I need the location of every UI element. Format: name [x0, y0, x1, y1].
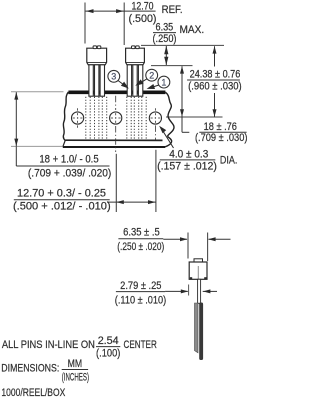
svg-text:REF.: REF.	[162, 4, 183, 16]
svg-text:MAX.: MAX.	[180, 24, 205, 36]
dimension 6.35 MAX arrow line	[165, 46, 167, 65]
svg-text:12.70: 12.70	[132, 1, 154, 13]
svg-text:(.500 + .012/ - .010): (.500 + .012/ - .010)	[13, 200, 111, 212]
sprocket hole 3 centerline dashes	[154, 108, 156, 110]
svg-text:2.54: 2.54	[98, 335, 119, 347]
carrier tape top band	[68, 91, 165, 95]
svg-text:ALL PINS IN-LINE ON: ALL PINS IN-LINE ON	[2, 339, 95, 351]
dimension 12.70 REF extension line right	[123, 3, 125, 46]
sprocket hole 1	[72, 112, 84, 124]
dimension 18 +/-.76 arrow line	[181, 66, 183, 116]
side view package centerline	[197, 266, 199, 279]
svg-text:6.35 ± .5: 6.35 ± .5	[123, 227, 160, 239]
svg-text:MM: MM	[68, 358, 83, 370]
dimension tape width extension lines	[11, 91, 64, 93]
label 18 +1.0/-0.5 (.709 +.039/-.020)	[16, 165, 109, 167]
side view lead dimension 2.79	[188, 285, 190, 296]
svg-text:DIMENSIONS:: DIMENSIONS:	[1, 363, 59, 375]
carrier tape bottom adhesive band	[65, 139, 162, 141]
carrier tape torn right edge	[165, 92, 174, 136]
svg-text:3: 3	[111, 72, 116, 82]
svg-text:(.110 ± .010): (.110 ± .010)	[115, 294, 167, 306]
svg-text:6.35: 6.35	[156, 22, 174, 34]
dimension pitch arrow line	[107, 201, 156, 203]
svg-text:(.709 ± .030): (.709 ± .030)	[195, 132, 248, 144]
transistor package left leads	[89, 65, 93, 96]
svg-text:(.250): (.250)	[153, 33, 177, 45]
svg-text:(.500): (.500)	[129, 13, 157, 25]
svg-text:2: 2	[149, 70, 154, 80]
svg-text:12.70 + 0.3/ - 0.25: 12.70 + 0.3/ - 0.25	[17, 187, 106, 199]
svg-text:(.960 ± .030): (.960 ± .030)	[188, 80, 242, 92]
transistor package right body	[126, 48, 145, 65]
pin label 1	[158, 76, 170, 88]
svg-text:1: 1	[161, 77, 166, 87]
side view upper lead	[198, 279, 201, 303]
reference line at sprocket hole centers	[166, 116, 223, 118]
transistor package left top tabs	[93, 46, 97, 49]
svg-text:18 ± .76: 18 ± .76	[204, 121, 237, 133]
sprocket hole 2 centerline (dash-dot)	[115, 96, 117, 110]
transistor package right top tabs	[132, 46, 136, 49]
reference line at seating plane	[151, 65, 193, 67]
svg-text:1000/REEL/BOX: 1000/REEL/BOX	[1, 387, 65, 399]
dimension 12.70 REF extension line left	[84, 3, 86, 44]
side view package body	[194, 259, 203, 262]
svg-text:(.250 ± .020): (.250 ± .020)	[117, 241, 164, 253]
svg-text:2.79 ± .25: 2.79 ± .25	[120, 280, 161, 292]
svg-text:24.38 ± 0.76: 24.38 ± 0.76	[190, 68, 241, 80]
svg-text:(.157 ± .012): (.157 ± .012)	[157, 160, 217, 172]
dimension pitch extension lines	[115, 154, 117, 212]
side view package feet	[190, 277, 192, 279]
pin label 3	[108, 70, 120, 82]
svg-text:(.709 + .039/ .020): (.709 + .039/ .020)	[28, 167, 112, 179]
side view lower lead	[195, 303, 199, 353]
svg-text:(INCHES): (INCHES)	[62, 372, 89, 384]
leads hidden inside tape (dashed)	[85, 97, 87, 140]
side view width extension lines	[187, 233, 189, 259]
dimension 12.70 REF line and fraction bar	[86, 10, 156, 12]
sprocket hole 3	[149, 112, 161, 124]
sprocket hole 1 centerline dashes	[77, 108, 79, 110]
svg-text:CENTER: CENTER	[124, 339, 157, 351]
svg-text:DIA.: DIA.	[220, 155, 238, 167]
dimension 24.38 +-0.76 arrow line	[214, 46, 216, 66]
svg-text:(.100): (.100)	[96, 348, 121, 360]
dimension tape width arrow line	[15, 92, 17, 146]
side view width dimension arrows	[163, 238, 187, 240]
sprocket hole 2	[110, 112, 122, 124]
pin label 2	[146, 69, 158, 81]
svg-text:4.0 ± 0.3: 4.0 ± 0.3	[169, 148, 208, 160]
transistor package left body	[87, 48, 107, 65]
carrier tape torn left edge	[63, 92, 68, 141]
svg-text:18 + 1.0/ - 0.5: 18 + 1.0/ - 0.5	[39, 154, 98, 166]
transistor package right leads	[127, 65, 131, 96]
reference line at component top	[141, 44, 224, 46]
dimension hole diameter leader	[162, 129, 174, 148]
